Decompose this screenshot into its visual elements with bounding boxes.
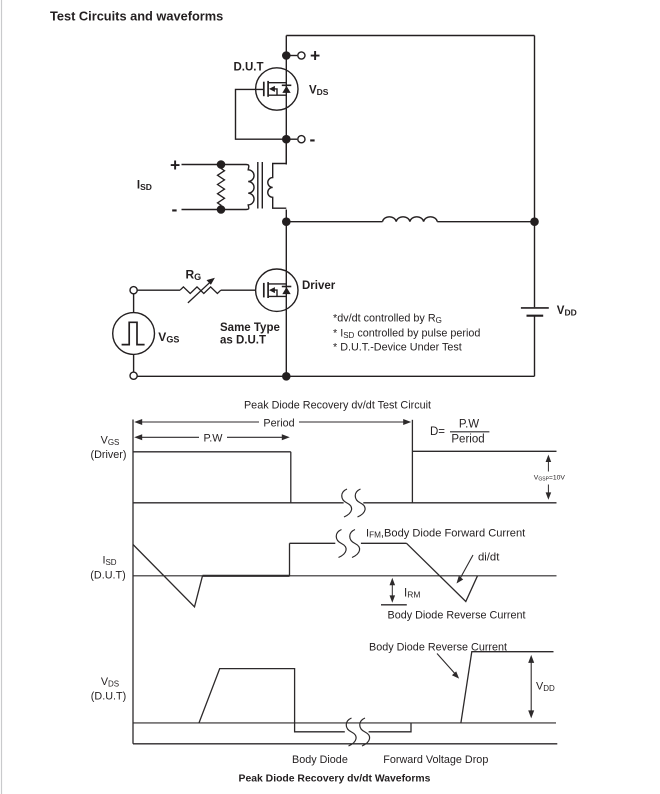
- resistor: transformer damping resistor (vertical zigzag): [218, 165, 225, 210]
- wire: VGS source bottom lead: [133, 354, 135, 372]
- svg-text:Peak Diode Recovery dv/dt Test: Peak Diode Recovery dv/dt Test Circuit: [244, 400, 431, 412]
- svg-text:di/dt: di/dt: [478, 552, 500, 564]
- svg-text:* D.U.T.-Device Under Test: * D.U.T.-Device Under Test: [333, 342, 462, 354]
- inductor L (4 bumps): [383, 217, 438, 222]
- arrow: pointer to VDS rising edge: [437, 654, 456, 675]
- wire: main bus top segment (drain of D.U.T to top rail): [285, 36, 287, 165]
- line: IRM level reference: [381, 604, 407, 606]
- svg-text:P.W: P.W: [459, 418, 479, 430]
- node: junction of bus and load wire: [282, 217, 291, 226]
- terminal: VGS source bottom: [130, 372, 137, 379]
- wire: load branch with inductor: [286, 221, 382, 223]
- transformer: primary side wires and junction dots: [182, 160, 247, 214]
- svg-text:(D.U.T): (D.U.T): [91, 691, 126, 703]
- transformer core (two vertical lines): [258, 162, 263, 209]
- source VGS (pulse generator): [113, 313, 155, 355]
- node: junction load/right bus: [530, 217, 539, 226]
- mosfet Driver: [256, 269, 298, 311]
- svg-text:(D.U.T): (D.U.T): [90, 570, 125, 582]
- svg-text:ISD: ISD: [137, 180, 152, 193]
- svg-text:P.W: P.W: [204, 432, 224, 444]
- svg-text:-: -: [310, 129, 316, 149]
- svg-text:VDS: VDS: [309, 85, 329, 98]
- node: + terminal of D.U.T: [282, 46, 320, 66]
- resistor RG (variable, horizontal zigzag with arrow): [137, 281, 256, 303]
- svg-text:+: +: [170, 155, 180, 175]
- svg-text:Body Diode Reverse Current: Body Diode Reverse Current: [388, 610, 526, 622]
- svg-text:*dv/dt controlled by RG: *dv/dt controlled by RG: [333, 313, 442, 325]
- waveform: bottom border line: [133, 743, 557, 745]
- svg-text:IRM: IRM: [404, 587, 420, 599]
- battery VDD: [521, 308, 549, 316]
- break symbol on VDS low line: [346, 718, 369, 746]
- waveform: ISD zero line: [133, 575, 557, 577]
- dimension arrow: VDD level: [530, 659, 532, 715]
- svg-text:Period: Period: [451, 433, 484, 445]
- arrow: di/dt pointer: [460, 555, 473, 579]
- node: - terminal of D.U.T: [282, 129, 316, 149]
- wire: right bus lower (from battery): [534, 316, 536, 376]
- terminal: VGS source top: [130, 287, 137, 294]
- break symbol on VGS baseline: [342, 489, 365, 517]
- mosfet D.U.T: [256, 68, 298, 110]
- svg-text:D.U.T: D.U.T: [234, 62, 264, 74]
- waveform: VDS reference line: [133, 722, 556, 724]
- wire: right bus upper (to battery): [534, 36, 536, 308]
- svg-text:Driver: Driver: [302, 280, 336, 292]
- dimension arrow: P.W: [137, 436, 288, 438]
- svg-text:* ISD controlled by pulse peri: * ISD controlled by pulse period: [333, 328, 480, 340]
- break symbol on ISD high line: [336, 530, 359, 558]
- svg-text:+: +: [310, 46, 320, 66]
- svg-text:-: -: [172, 199, 178, 219]
- svg-text:Test Circuits and waveforms: Test Circuits and waveforms: [50, 9, 223, 24]
- dimension arrow: IRM: [391, 581, 393, 599]
- svg-text:as D.U.T: as D.U.T: [220, 335, 266, 347]
- svg-text:Body Diode: Body Diode: [292, 754, 348, 766]
- wire: bottom rail: [137, 375, 534, 377]
- svg-text:Peak Diode Recovery dv/dt Wave: Peak Diode Recovery dv/dt Waveforms: [239, 773, 431, 784]
- svg-text:Forward Voltage Drop: Forward Voltage Drop: [383, 754, 488, 766]
- svg-text:VDD: VDD: [557, 305, 577, 318]
- node: junction bus/bottom rail: [282, 372, 291, 381]
- waveform axis (left vertical): [132, 420, 134, 744]
- wire: top rail: [286, 35, 534, 37]
- waveform: VGS trace: [133, 420, 557, 503]
- transformer primary winding (3 bumps): [246, 165, 254, 210]
- waveform: ISD trace: [133, 543, 478, 607]
- svg-text:IFM,Body Diode Forward Current: IFM,Body Diode Forward Current: [366, 527, 525, 539]
- svg-text:(Driver): (Driver): [91, 449, 127, 461]
- wire: gate loop of D.U.T (gate tied to source node): [236, 89, 287, 139]
- svg-text:D=: D=: [430, 426, 445, 438]
- dimension arrow: VGSP=10V: [547, 458, 549, 497]
- wire: main bus middle segment (transformer to driver): [285, 210, 287, 377]
- waveform: VDS trace: [199, 652, 554, 732]
- dimension arrow: Period: [137, 421, 409, 423]
- svg-text:VGSP=10V: VGSP=10V: [534, 475, 566, 483]
- wire: terminal to VGS source: [133, 294, 135, 313]
- svg-text:Same Type: Same Type: [220, 322, 280, 334]
- svg-text:Period: Period: [263, 417, 294, 429]
- transformer secondary winding (2 bumps) and leads: [268, 164, 287, 209]
